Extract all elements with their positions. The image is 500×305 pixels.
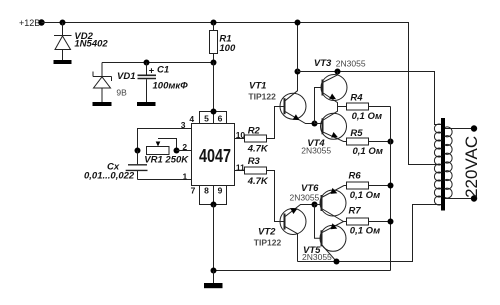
svg-text:4: 4: [189, 114, 194, 124]
node secondary bottom terminal: [471, 195, 477, 201]
svg-text:1N5402: 1N5402: [74, 39, 108, 50]
node VT1 collector rail: [295, 69, 301, 75]
svg-text:4.7K: 4.7K: [247, 176, 269, 187]
node VD2 junction: [60, 20, 66, 26]
wire collector rail to primary top: [298, 72, 442, 125]
wire R4 to bus: [369, 106, 391, 108]
svg-text:TIP122: TIP122: [248, 92, 276, 102]
wire pin 11: [235, 170, 245, 172]
wire VT2 collector to primary bottom: [298, 205, 442, 262]
transistor VT2: [280, 205, 315, 262]
svg-text:10: 10: [236, 130, 246, 140]
wire R7 left: [344, 221, 347, 223]
ground main: [204, 271, 223, 289]
wire R2 to VT1 base: [267, 107, 285, 139]
transformer T1 core: [441, 118, 445, 211]
node VR1 right: [174, 148, 180, 154]
node R1 bottom: [211, 60, 217, 66]
transistor VT3: [321, 72, 347, 107]
wire pin 3: [138, 129, 192, 151]
wire IC bottom to ground rail: [213, 205, 215, 271]
transistor VT6: [320, 186, 347, 222]
transistor VT1: [280, 72, 315, 124]
ground VD1: [93, 102, 112, 106]
transistor VT5: [320, 222, 346, 262]
wire pin 2: [177, 150, 192, 152]
wire bottom ground rail: [214, 270, 391, 272]
node pin 5/6 junction: [211, 109, 217, 115]
svg-text:VT2: VT2: [258, 227, 276, 238]
wire +12V riser to collector rail: [297, 23, 299, 72]
node R6 bus: [388, 183, 394, 189]
op-amp U1 4047 top pin box pins 5 6: [200, 112, 227, 124]
svg-text:0,1 Ом: 0,1 Ом: [352, 111, 382, 122]
svg-text:R5: R5: [350, 128, 363, 139]
node VT1 emitter junction: [312, 121, 318, 127]
node R7 bus: [388, 219, 394, 225]
svg-text:VR1 250K: VR1 250K: [144, 154, 189, 165]
svg-text:2N3055: 2N3055: [301, 146, 331, 156]
node +12V terminal: [38, 19, 44, 25]
wire R5 to bus: [369, 141, 391, 143]
potentiometer VR1: [147, 139, 177, 155]
wire VT4 base: [315, 123, 323, 125]
svg-text:TIP122: TIP122: [254, 237, 282, 247]
resistor R6: [347, 182, 369, 189]
transistor VT4: [321, 107, 347, 142]
svg-text:R3: R3: [248, 156, 261, 167]
svg-text:R4: R4: [350, 93, 363, 104]
wire secondary bottom: [445, 198, 471, 200]
wire R6 to bus: [369, 185, 391, 187]
node VT3 collector: [335, 69, 341, 75]
wire pin 10: [235, 138, 245, 140]
svg-text:100: 100: [219, 43, 236, 54]
svg-text:4.7K: 4.7K: [247, 143, 269, 154]
resistor R3: [245, 167, 267, 174]
svg-text:4047: 4047: [199, 146, 231, 166]
svg-text:0,01...0,022: 0,01...0,022: [84, 170, 135, 181]
svg-text:220VAC: 220VAC: [462, 136, 481, 198]
wire pin 1: [138, 179, 192, 181]
node C1 top: [144, 60, 150, 66]
svg-text:0,1 Ом: 0,1 Ом: [350, 225, 380, 236]
op-amp U1 4047 body: [192, 124, 235, 186]
wire R7 to bus: [369, 221, 391, 223]
resistor R5: [347, 138, 369, 145]
ground VD2: [54, 60, 72, 64]
svg-text:6: 6: [218, 113, 223, 123]
svg-text:0,1 Ом: 0,1 Ом: [350, 190, 380, 201]
svg-text:3: 3: [181, 120, 186, 130]
svg-text:R6: R6: [349, 170, 362, 181]
wire secondary top: [445, 128, 471, 130]
svg-text:C1: C1: [157, 65, 169, 76]
svg-text:9В: 9В: [116, 87, 127, 97]
node Cx top: [135, 148, 141, 154]
svg-text:1: 1: [183, 171, 188, 181]
svg-text:2N3055: 2N3055: [290, 192, 320, 202]
capacitor C1: [138, 63, 157, 103]
svg-text:2N3055: 2N3055: [336, 58, 366, 68]
wire R3 to VT2 base: [267, 171, 285, 222]
diode VD2: [54, 23, 72, 61]
svg-text:11: 11: [236, 162, 245, 172]
svg-text:100мкФ: 100мкФ: [153, 81, 189, 92]
resistor R4: [347, 103, 369, 110]
op-amp U1 4047 bottom pin box pins 8 9: [200, 186, 227, 205]
svg-text:R7: R7: [349, 206, 362, 217]
zener VD1: [93, 63, 112, 103]
node ground rail left: [211, 268, 217, 274]
node R1 top: [211, 20, 217, 26]
resistor R1: [210, 23, 218, 63]
svg-text:2N3055: 2N3055: [302, 252, 332, 262]
ground C1: [137, 102, 156, 106]
wire right emitter bus: [390, 107, 392, 271]
wire R1 bottom to IC top: [213, 63, 215, 112]
wire VT3 base riser: [315, 88, 323, 124]
svg-text:VT1: VT1: [249, 81, 266, 92]
svg-text:VD1: VD1: [117, 71, 135, 82]
node secondary top terminal: [471, 125, 477, 131]
svg-text:R2: R2: [248, 125, 261, 136]
transformer T1 primary winding: [434, 124, 441, 205]
svg-text:2: 2: [182, 142, 187, 152]
wire VT6 base: [315, 204, 322, 206]
wire top +12V rail to transformer center tap: [42, 23, 442, 165]
svg-text:7: 7: [191, 186, 196, 196]
svg-text:+: +: [149, 66, 155, 77]
capacitor Cx: [126, 151, 148, 180]
wire VT5 base riser: [315, 205, 322, 239]
svg-text:9: 9: [218, 186, 223, 196]
node top rail riser: [295, 20, 301, 26]
node pin 8/9 junction: [211, 202, 217, 208]
wire VD1/C1/R1 node: [102, 62, 214, 64]
node VT5 collector: [334, 259, 340, 265]
svg-text:8: 8: [204, 186, 209, 196]
node VT2 emitter junction: [312, 202, 318, 208]
svg-text:VT3: VT3: [314, 58, 332, 69]
svg-text:5: 5: [204, 113, 209, 123]
resistor R7: [347, 218, 369, 225]
resistor R2: [245, 135, 267, 142]
svg-text:0,1 Ом: 0,1 Ом: [353, 146, 383, 157]
transformer T1 secondary winding: [445, 127, 452, 198]
node R5 bus: [388, 139, 394, 145]
svg-text:+12В: +12В: [19, 18, 40, 28]
